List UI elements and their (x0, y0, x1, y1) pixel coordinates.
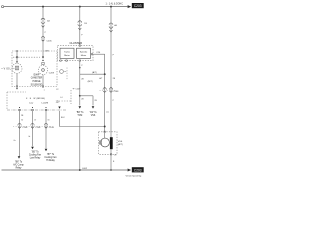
svg-text:VIOL: VIOL (4, 68, 12, 70)
svg-text:A/C Comp: A/C Comp (13, 163, 24, 166)
junction top rail / wire C (110, 6, 112, 8)
arrow to cooling fan low relay (31, 147, 34, 149)
12V feed arrow (58, 107, 60, 109)
svg-text:K E W (BR/100): K E W (BR/100) (26, 98, 45, 100)
svg-text:Cooling Fan: Cooling Fan (29, 154, 42, 156)
svg-text:Low: Low (29, 103, 33, 105)
node above solenoid (16, 61, 17, 62)
connector C208 on speedo wire (103, 88, 106, 93)
junction top rail / wire B (79, 6, 81, 8)
node on wire (79, 67, 80, 68)
arrow to A/C comp relay (18, 156, 21, 158)
connector C108 wire3 (44, 123, 47, 128)
wire cluster output right (93, 53, 105, 55)
svg-text:Or: Or (34, 119, 36, 122)
pin dot 2 (32, 107, 33, 108)
wire 12V down (59, 111, 61, 127)
pin dot 3 (45, 107, 46, 108)
svg-text:“D2” To: “D2” To (89, 112, 97, 114)
svg-text:Meter: Meter (64, 54, 70, 57)
svg-text:CLUSTER: CLUSTER (70, 41, 83, 45)
svg-text:(L): (L) (106, 112, 109, 114)
svg-text:Vehicle Speed Sig: Vehicle Speed Sig (126, 175, 142, 177)
connector on wire C (109, 23, 113, 32)
wire branch right (80, 95, 93, 97)
svg-text:(A/T): (A/T) (92, 71, 97, 74)
VSS dashed box (99, 132, 118, 155)
svg-text:Tacho: Tacho (64, 52, 71, 54)
wire branch to left (80, 73, 105, 75)
inner dashed border (13, 56, 40, 58)
PCM dashed left border (6, 92, 8, 110)
svg-text:1 : 1.4L & DOHC: 1 : 1.4L & DOHC (106, 3, 124, 5)
svg-text:VSS: VSS (118, 141, 123, 143)
connector C108 wire1 (18, 123, 21, 128)
connector C205 on wire A (41, 37, 44, 42)
svg-text:EVAP: EVAP (34, 73, 40, 76)
svg-text:(A/T): (A/T) (118, 143, 123, 146)
svg-text:Gr: Gr (13, 139, 15, 142)
pin wire A on box bottom (42, 86, 43, 87)
svg-text:Gr: Gr (28, 135, 30, 138)
EVAP canister assembly dashed box (12, 51, 57, 87)
wire to cooling fan hi relay (45, 111, 47, 148)
svg-text:C205: C205 (47, 40, 53, 42)
port circle right of EVAP box (60, 70, 64, 74)
svg-text:C108: C108 (22, 127, 28, 129)
EVAP purge solenoid (left, dashed circle) (12, 63, 22, 73)
pin cluster top (79, 45, 80, 46)
junction at VSS feed (104, 126, 106, 128)
svg-text:Gr: Gr (48, 119, 50, 122)
svg-text:“B6” To: “B6” To (76, 112, 84, 114)
EVAP purge solenoid valve (right, dashed circle) (38, 65, 47, 74)
pin cluster right (91, 54, 92, 55)
junction A/T branch (104, 73, 106, 75)
node wire A (42, 60, 43, 61)
PCM dashed right border (70, 90, 72, 104)
svg-text:C108: C108 (49, 127, 55, 129)
wire B down to cluster (79, 7, 81, 45)
black reference box C203 top right (132, 3, 144, 8)
connector on wire A (41, 18, 45, 27)
svg-text:Meter: Meter (81, 54, 87, 57)
svg-text:C208: C208 (113, 91, 119, 93)
wire to A/C compressor relay (19, 111, 21, 156)
wire speedo vertical to TCM/VSS (79, 62, 81, 106)
node below box (16, 88, 17, 89)
dash VIOL to solenoid (13, 67, 15, 69)
svg-text:L4: L4 (60, 97, 62, 99)
svg-text:Cooling Fan: Cooling Fan (44, 157, 57, 159)
connector C208 on wire C (109, 88, 112, 93)
svg-text:2x: 2x (114, 155, 116, 157)
svg-text:C203: C203 (134, 4, 142, 8)
pin cluster bottom 1 (60, 60, 61, 61)
off-page arrow to C203 (top right) (128, 5, 132, 8)
wire speedo signal down (104, 54, 106, 132)
pin wire A on inner border (42, 57, 43, 58)
svg-text:G102: G102 (82, 168, 88, 170)
wire VSS ground down (79, 119, 81, 170)
svg-text:C108: C108 (35, 127, 41, 129)
wire C down right side (110, 7, 112, 138)
junction bottom rail (110, 169, 112, 171)
junction ground rail (79, 169, 81, 171)
node: left terminal of top B+ rail (1, 6, 3, 8)
svg-text:Hi Relay: Hi Relay (46, 160, 55, 162)
junction on box top (16, 50, 18, 52)
stub into coil (104, 133, 106, 138)
wire to cooling fan low relay (32, 111, 34, 146)
wire ground rail (2, 169, 128, 171)
short dashed border (66, 68, 68, 81)
junction branch to VSS arrow (79, 95, 81, 97)
svg-text:CANISTER: CANISTER (31, 77, 43, 80)
dashed tie C108 row (13, 125, 53, 127)
tick right of port circle (64, 71, 66, 73)
wire VSS to ground rail (110, 155, 112, 170)
svg-text:Speedo: Speedo (80, 52, 88, 54)
solenoid lower lead (16, 73, 18, 85)
pin on inner border (16, 57, 17, 58)
svg-text:Relay: Relay (16, 167, 23, 169)
pin VSS bottom (110, 154, 111, 155)
wire down to VSS arrow (92, 96, 94, 106)
svg-text:PURGE: PURGE (32, 81, 41, 83)
off-page arrow To VSS (92, 106, 95, 108)
wire 12V to VSS (60, 126, 105, 128)
svg-text:x: x (44, 90, 45, 92)
svg-text:Low Relay: Low Relay (30, 157, 41, 159)
pin dot 1 (19, 107, 20, 108)
cluster dashed box (58, 46, 94, 61)
connector C108 wire2 (31, 123, 34, 128)
dashed tie C208 (100, 90, 117, 92)
pin VSS top (104, 131, 105, 132)
off-page arrow to C203 (bottom right) (128, 169, 132, 172)
svg-text:Low/Hi: Low/Hi (42, 103, 49, 105)
svg-text:C203: C203 (134, 168, 142, 172)
wire A down to EVAP solenoid (42, 7, 44, 58)
solenoid valve lower lead (42, 75, 44, 86)
svg-text:Gr: Gr (21, 119, 23, 122)
svg-text:“B6” To: “B6” To (15, 161, 23, 163)
black reference box bottom right (132, 167, 144, 172)
svg-text:SOLENOID: SOLENOID (31, 84, 43, 86)
pin cluster bottom 2 (66, 60, 67, 61)
VSS pickup coil circle (101, 138, 110, 147)
svg-text:C2: C2 (56, 89, 58, 91)
PCM dashed partial border (62, 100, 72, 102)
wire rotor to pin (110, 149, 112, 154)
pin speedometer bottom (79, 60, 80, 61)
PCM dashed top border (7, 91, 26, 93)
connector on wire B (78, 21, 82, 30)
arrow to cooling fan hi relay (45, 149, 48, 151)
speedometer box (77, 48, 91, 58)
wire top 12V rail (4, 6, 128, 8)
PCM dash-dot bottom border (7, 109, 67, 111)
svg-text:12V: 12V (56, 101, 61, 103)
off-page arrow To TCM (79, 106, 82, 108)
svg-text:“B7” To: “B7” To (47, 154, 55, 156)
PCM pin 1 (19, 109, 21, 111)
svg-text:“F” C209: “F” C209 (72, 89, 81, 91)
svg-text:VSS: VSS (91, 115, 96, 117)
svg-text:TCM: TCM (77, 115, 82, 117)
svg-text:“B5” To: “B5” To (31, 151, 39, 153)
PCM pin 2 (32, 109, 34, 111)
PCM pin 3 (45, 109, 47, 111)
coil element on wire A (42, 62, 44, 64)
tachometer box (60, 48, 74, 58)
VSS toothed rotor (black bar) (110, 137, 113, 149)
wire stub into purge solenoid (16, 51, 18, 63)
pin on box bottom (16, 86, 17, 87)
junction top rail / wire A (42, 6, 44, 8)
dash left of VIOL (1, 67, 3, 69)
svg-text:(M/T): (M/T) (88, 81, 93, 83)
svg-text:C209: C209 (49, 72, 55, 74)
